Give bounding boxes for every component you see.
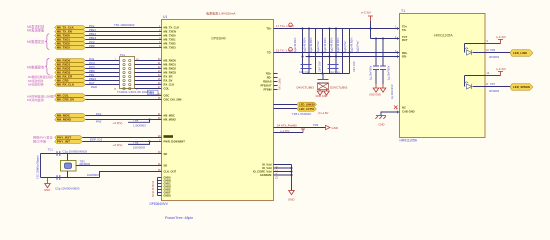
svg-text:PowerTree: 48pin: PowerTree: 48pin (165, 216, 193, 220)
svg-text:1gΩ 49.9/1%: 1gΩ 49.9/1% (294, 37, 297, 52)
wire MII_COL (86, 95, 162, 97)
svg-text:MII发送使能: MII发送使能 (27, 28, 45, 33)
no-erc arrow (326, 125, 331, 129)
port MII_CRS_DV (55, 98, 86, 102)
svg-text:DP83640: DP83640 (212, 37, 226, 41)
svg-text:RX+ 1.8(V): RX+ 1.8(V) (279, 78, 282, 90)
capacitor CA plates (373, 66, 379, 70)
LED D2 (464, 81, 471, 89)
svg-text:(+3.3)V: (+3.3)V (496, 67, 506, 71)
svg-text:MII_TXD3: MII_TXD3 (164, 46, 177, 50)
port MII_TXD3 (55, 46, 86, 50)
wire crystal left vertical (40, 154, 42, 178)
svg-text:Y1C 25MHz/30ppm: Y1C 25MHz/30ppm (36, 155, 40, 179)
wire LED loop 2 (465, 76, 486, 87)
svg-text:CAB GND: CAB GND (402, 109, 415, 113)
svg-text:100/0603: 100/0603 (87, 173, 99, 177)
svg-text:GND: GND (332, 126, 338, 130)
svg-text:10nF 2KV: 10nF 2KV (319, 61, 322, 72)
svg-text:GNDG: GNDG (164, 195, 172, 198)
port MII_TX_EN (55, 30, 86, 34)
wire riser TR3 (100, 172, 162, 178)
wire MDIO pullup stub (128, 120, 150, 123)
junction MDIO pullup (149, 119, 151, 121)
port LED_ACT50 (297, 107, 317, 112)
svg-text:1gΩ (Pwr): 1gΩ (Pwr) (357, 41, 360, 52)
U1 pin name RESET (overline) (164, 135, 174, 138)
IC U1 DP83640 PHY body (162, 20, 274, 201)
svg-text:1gΩ 49.9/1%: 1gΩ 49.9/1% (304, 37, 307, 52)
svg-text:MII接收时钟: MII接收时钟 (28, 82, 44, 87)
LED D1 (464, 47, 471, 55)
svg-text:2K/0603: 2K/0603 (489, 89, 500, 93)
wire TD+ (274, 28, 400, 30)
svg-text:(+1.8)V: (+1.8)V (280, 129, 290, 133)
power +3.3V LED 1 (485, 43, 501, 45)
svg-text:TR8: TR8 (133, 140, 139, 144)
U1 power pin names (253, 163, 272, 178)
capacitor C1 plates (57, 151, 60, 156)
svg-text:17 TX+ 1.8(V): 17 TX+ 1.8(V) (276, 24, 294, 28)
svg-text:LED_LINK50: LED_LINK50 (299, 103, 315, 107)
U1 power pins right (274, 165, 292, 191)
svg-text:MII_MDIO: MII_MDIO (57, 118, 72, 122)
pin numbers LED 1 (486, 40, 489, 52)
port MII_TXD1 (55, 38, 86, 42)
port LED_LINK50 (297, 102, 317, 107)
svg-text:PH0: PH0 (91, 85, 97, 89)
svg-text:GND GND: GND GND (369, 93, 381, 96)
svg-text:RD+: RD+ (266, 72, 272, 76)
wire MII_MDC (86, 115, 162, 117)
TS1 pin number marks (115, 58, 140, 91)
connector T1 body HR911105A (400, 14, 486, 138)
svg-text:+3.3(V): +3.3(V) (113, 143, 123, 147)
svg-text:MII_TXD2: MII_TXD2 (164, 42, 177, 46)
wire MII_TXD2 (86, 43, 162, 45)
wire MII_CRS (86, 80, 162, 82)
svg-text:RX_DV: RX_DV (164, 79, 173, 83)
jack pin ticks (397, 27, 399, 113)
svg-text:1gΩ 49.9/1%: 1gΩ 49.9/1% (324, 37, 327, 52)
ground CB (382, 84, 384, 88)
svg-text:D4/VCTL/B63: D4/VCTL/B63 (297, 85, 315, 89)
pin numbers LED 2 (486, 72, 490, 86)
ground CA (375, 84, 377, 88)
U1 right reserved pins (274, 74, 278, 90)
svg-text:24 ATX_Pw480: 24 ATX_Pw480 (277, 124, 297, 128)
svg-text:TR9: TR9 (313, 123, 319, 127)
wire center tap rail (306, 56, 400, 58)
svg-text:MII_TXD0: MII_TXD0 (164, 34, 177, 38)
U1 pin names MII TX (164, 26, 180, 50)
port MII_RXD1 (55, 63, 86, 67)
resistor comb verticals R21-R28 (302, 29, 304, 74)
power +3.3V top (368, 16, 373, 21)
wire MII_MDIO (86, 119, 162, 121)
crystal Y1 body (61, 161, 77, 172)
U1 pin names MII RX (164, 59, 177, 91)
wire 3v3 drop (370, 21, 372, 39)
svg-text:MII_CRS_DV: MII_CRS_DV (57, 98, 74, 102)
svg-text:D3/VCTL/B63: D3/VCTL/B63 (330, 85, 348, 89)
wire MII_TXD3 (86, 47, 162, 49)
port MII_COL (55, 94, 86, 98)
svg-text:PA3: PA3 (149, 91, 155, 95)
wire LED out 1 (473, 52, 511, 54)
svg-text:C2g 10V/50V/0603: C2g 10V/50V/0603 (55, 187, 80, 191)
svg-text:RD-: RD- (402, 54, 407, 58)
svg-text:IO_Vdd: IO_Vdd (262, 163, 272, 167)
brace group A (45, 34, 49, 50)
svg-text:ESP_IO1: ESP_IO1 (90, 137, 102, 141)
wire crystal top to X1 (41, 153, 162, 155)
svg-text:TD+: TD+ (402, 25, 408, 29)
svg-text:TC1: TC1 (48, 148, 54, 152)
svg-text:网口/中断: 网口/中断 (33, 138, 46, 143)
svg-text:MII_MDC: MII_MDC (164, 114, 175, 118)
resistor network TS1 body (120, 57, 135, 89)
U1 ground pins bus (158, 178, 162, 196)
ground D4 (319, 90, 321, 92)
svg-text:TR6: TR6 (490, 48, 496, 52)
svg-text:IO_Vdd: IO_Vdd (262, 166, 272, 170)
svg-text:MII_RXD2: MII_RXD2 (164, 67, 177, 71)
svg-text:SD: SD (164, 152, 168, 156)
svg-text:MII_TXD1: MII_TXD1 (164, 38, 177, 42)
svg-text:MII双向监测: MII双向监测 (27, 97, 44, 102)
earth ground cable shield (375, 116, 386, 119)
svg-text:GND: GND (379, 122, 385, 126)
wire MII_RXD1 (86, 64, 162, 66)
port MII_RXD2 (55, 67, 86, 71)
svg-text:1g 10nF/50V: 1g 10nF/50V (370, 65, 373, 80)
port LED_LINK (510, 50, 533, 56)
wire MII_RX_ER (86, 76, 162, 78)
svg-text:LED_LINK: LED_LINK (513, 51, 528, 55)
ground power pins (289, 191, 295, 195)
capacitor C17 plates (328, 65, 339, 69)
svg-text:10K/0603: 10K/0603 (133, 146, 145, 150)
svg-text:MII_TXEN: MII_TXEN (164, 30, 176, 34)
port MII_TXD0 (55, 34, 86, 38)
power +3.3V LED 2 (485, 75, 501, 77)
svg-text:PHY_INT: PHY_INT (57, 140, 70, 144)
wire PHY_INT (83, 141, 162, 143)
svg-text:16 TX- 1.8(V): 16 TX- 1.8(V) (276, 48, 293, 52)
port MII_RX_CLK (55, 83, 86, 87)
svg-text:TD-: TD- (402, 28, 407, 32)
port PHY_RST (55, 136, 83, 140)
rotated TVS notes (319, 61, 357, 72)
wire crystal to X2 (76, 165, 162, 167)
rotated cap value notes (370, 65, 391, 80)
wire INT pullup stub (128, 142, 150, 145)
no-connect X on NC pin (394, 106, 398, 110)
svg-text:MII_RX_CLK: MII_RX_CLK (57, 83, 75, 87)
svg-text:PFBIN: PFBIN (263, 88, 271, 92)
port MII_TX_CLK (55, 26, 86, 30)
port MII_MDIO (55, 118, 86, 122)
svg-text:T1: T1 (401, 9, 405, 13)
U1 pin names MDC MDIO (164, 114, 176, 122)
svg-text:PWR_DOWN/INT: PWR_DOWN/INT (164, 140, 186, 144)
svg-text:MII_RXD0: MII_RXD0 (164, 59, 177, 63)
wire MII_CRS_DV (86, 99, 162, 101)
wire PHY_RST (83, 137, 162, 139)
rotated resistor value notes (294, 37, 360, 52)
svg-text:TD-: TD- (267, 51, 272, 55)
svg-text:(+3.3)V: (+3.3)V (496, 35, 506, 39)
net label box on COL wire (148, 90, 159, 94)
wire COL from resistor network (135, 88, 162, 90)
svg-text:MII_TXD3: MII_TXD3 (57, 46, 70, 50)
wire lower rail (303, 73, 350, 75)
port PHY_INT (55, 140, 83, 144)
wire ATX power (274, 127, 326, 129)
U1 pin names crystal (164, 152, 177, 174)
capacitor C2 plates (57, 175, 60, 180)
svg-text:PA2: PA2 (96, 119, 102, 123)
svg-text:(C+1.8V: (C+1.8V (318, 111, 328, 115)
svg-text:MII数据发送: MII数据发送 (27, 39, 45, 44)
svg-text:SD: SD (164, 164, 168, 168)
wire MII_RXD0 (86, 60, 162, 62)
svg-text:OSC: OSC (164, 94, 170, 98)
svg-text:LED_SPEED: LED_SPEED (513, 85, 530, 89)
svg-text:+3.3(V): +3.3(V) (113, 121, 123, 125)
svg-text:1gΩ 49.9/1%: 1gΩ 49.9/1% (337, 37, 340, 52)
svg-text:GND GND: GND GND (316, 95, 328, 98)
wire CAB GND to earth (381, 112, 400, 116)
U1 pin numbers MII RX (158, 58, 161, 89)
svg-text:PFBOUT: PFBOUT (260, 84, 271, 88)
wire LED_LINK (274, 104, 298, 106)
wire crystal bottom (41, 177, 100, 179)
wire MII_TX_CLK (86, 27, 162, 29)
ground D3 (326, 90, 328, 92)
svg-text:1g 10nF/2KV: 1g 10nF/2KV (391, 84, 394, 99)
brace group B (45, 59, 49, 75)
port MII_RXD0 (55, 59, 86, 63)
wire TD- (274, 52, 400, 54)
svg-text:1gΩ 49.9/1%: 1gΩ 49.9/1% (310, 37, 313, 52)
svg-text:LED_ACT50: LED_ACT50 (299, 107, 314, 111)
svg-text:2K/0603: 2K/0603 (489, 55, 500, 59)
port MII_RXD3 (55, 71, 86, 75)
U1 right pin names (260, 27, 271, 92)
svg-text:MII_MDIO: MII_MDIO (164, 118, 176, 122)
svg-text:0R/0603: 0R/0603 (80, 162, 91, 166)
wire to TCT (371, 38, 400, 40)
svg-text:1gΩ (Pwr): 1gΩ (Pwr) (317, 41, 320, 52)
svg-text:TR7: TR7 (490, 82, 496, 86)
wire LED loop 1 (465, 44, 486, 53)
wire TVS drop (322, 74, 324, 80)
wire MII_TXD1 (86, 39, 162, 41)
capacitor CB drop (382, 39, 384, 85)
port MII_RX_ER (55, 75, 86, 79)
TS1 pin circles (123, 59, 131, 89)
wire LED_ACT (274, 108, 298, 110)
wire LED out 2 (473, 86, 511, 88)
svg-text:MII_TX_CLK: MII_TX_CLK (164, 26, 180, 30)
svg-text:GND: GND (44, 188, 50, 192)
capacitor CA drop (375, 39, 377, 85)
svg-text:PB8: PB8 (89, 44, 95, 48)
svg-text:33 34 35 36 37: 33 34 35 36 37 (152, 180, 155, 197)
svg-text:TR5 1.5K/0603: TR5 1.5K/0603 (292, 112, 311, 116)
TVS diode D4 D3 box (318, 83, 329, 90)
port MII_TXD2 (55, 42, 86, 46)
svg-text:MII数据接收: MII数据接收 (27, 65, 45, 70)
svg-text:RX_ER: RX_ER (164, 75, 173, 79)
svg-text:1.5K/0603: 1.5K/0603 (133, 124, 146, 128)
wire MII_RXD3 (86, 72, 162, 74)
svg-text:IO_CORE_Vdd: IO_CORE_Vdd (253, 170, 272, 174)
svg-text:RD-: RD- (267, 76, 272, 80)
U1 pin numbers MII TX (159, 25, 161, 48)
svg-text:PC1: PC1 (96, 112, 102, 116)
svg-text:1gΩ 49.9/1%: 1gΩ 49.9/1% (351, 37, 354, 52)
svg-text:RCT: RCT (402, 38, 408, 42)
diff pair marker TD- (289, 48, 293, 52)
svg-text:TR1 100Ω/0402: TR1 100Ω/0402 (114, 23, 135, 27)
svg-text:RBIAS: RBIAS (263, 80, 272, 84)
svg-text:1gΩ (Pwr): 1gΩ (Pwr) (344, 41, 347, 52)
T1 left pin names (402, 25, 415, 114)
svg-text:C1g 10V/50V/0603: C1g 10V/50V/0603 (63, 150, 88, 154)
capacitor C18 plates (318, 80, 329, 84)
junction dots (301, 27, 384, 74)
svg-text:U1: U1 (163, 15, 167, 19)
U1 pin names OSC (164, 94, 183, 102)
svg-text:HR911105A: HR911105A (434, 34, 453, 38)
U1 ground pin names (164, 177, 172, 198)
junction INT pullup (149, 141, 151, 143)
port MII_MDC (55, 114, 86, 118)
svg-text:RX_CLK: RX_CLK (164, 83, 175, 87)
svg-text:COL: COL (164, 87, 170, 91)
wire MII_RX_CLK (86, 84, 162, 86)
T1 left pin numbers (395, 26, 398, 111)
wire MII_TX_EN (86, 31, 162, 33)
port MII_CRS (55, 79, 86, 83)
svg-text:NC: NC (402, 106, 406, 110)
svg-text:AGNDVB: AGNDVB (260, 173, 272, 177)
svg-text:CLK_OUT: CLK_OUT (164, 169, 177, 173)
wire MII_RXD2 (86, 68, 162, 70)
svg-text:电源电流:1.8V/100mA: 电源电流:1.8V/100mA (206, 11, 235, 16)
svg-text:23 24 32 48: 23 24 32 48 (276, 166, 279, 179)
svg-text:(+3.3)V: (+3.3)V (361, 11, 371, 15)
diff pair marker TD+ (289, 23, 293, 27)
svg-text:RD+: RD+ (402, 51, 408, 55)
svg-text:GND: GND (288, 198, 294, 202)
svg-text:1gΩ 49.9/1%: 1gΩ 49.9/1% (331, 37, 334, 52)
svg-text:MII_RXD3: MII_RXD3 (164, 71, 177, 75)
capacitor CB plates (380, 66, 386, 70)
svg-text:DP83640IVV: DP83640IVV (150, 202, 169, 206)
crystal Y1 lens (65, 163, 72, 168)
wire 1.8V stub (274, 132, 304, 134)
svg-text:TCT: TCT (402, 35, 408, 39)
wire MII_TXD0 (86, 35, 162, 37)
svg-text:OSC CKI_25M: OSC CKI_25M (164, 98, 183, 102)
crystal stubs (67, 154, 69, 178)
svg-text:HR911105A: HR911105A (400, 138, 418, 142)
capacitor C16 plates (301, 65, 312, 69)
svg-text:1g 10nF/50V: 1g 10nF/50V (388, 65, 391, 80)
ground crystal (47, 178, 49, 184)
svg-text:10nF 2KV: 10nF 2KV (353, 61, 356, 72)
port LED_SPEED (510, 84, 533, 90)
svg-text:TD+: TD+ (266, 27, 272, 31)
svg-text:TR4: TR4 (133, 118, 139, 122)
svg-text:MII_RXD1: MII_RXD1 (164, 63, 177, 67)
